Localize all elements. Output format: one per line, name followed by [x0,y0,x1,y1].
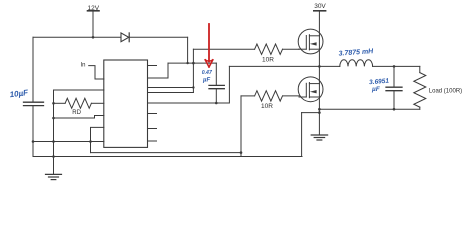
wire In [89,66,104,79]
wire rail B bottom [33,156,302,158]
annotation arrow red [205,24,213,67]
wire R1 to gate [283,48,300,50]
transistor Q1 [298,29,323,54]
wire RD bottom [54,116,104,119]
svg-text:Load (100R): Load (100R) [429,89,462,95]
node filter cap bottom [393,108,396,111]
svg-text:30V: 30V [314,3,326,10]
pin wire HIN b [148,92,194,94]
wire LO riser [240,96,242,157]
svg-text:10µF: 10µF [9,88,29,99]
svg-text:RD: RD [72,110,81,116]
op-amp U1 (driver IC body) [104,60,148,147]
node rail B [52,155,55,158]
wire bottom return [319,108,419,110]
wire R2 to gate [283,95,300,97]
pin stub right 7 [148,128,157,130]
svg-text:3.6951: 3.6951 [369,78,390,87]
capacitor C1 10uF [24,37,44,156]
node VB [186,62,188,64]
ground left [46,174,62,179]
wire pin LO-return [91,127,104,152]
resistor R1 10R [255,44,283,54]
pin stub right 8 [148,140,157,142]
svg-text:µF: µF [202,77,210,83]
svg-text:In: In [80,63,85,69]
wire diode drop [187,37,189,63]
resistor R3 load [414,66,426,109]
ground mid [311,135,327,140]
wire top rail right [129,36,187,38]
node HIN [192,86,194,88]
svg-text:10R: 10R [261,103,273,110]
wire rail A ground [33,141,104,143]
wire return drop [301,113,303,157]
svg-text:10R: 10R [262,57,274,64]
node rail A right [89,140,92,143]
node C2 bottom [215,102,218,105]
svg-text:3.7875 mH: 3.7875 mH [338,48,374,57]
svg-text:µF: µF [371,86,381,93]
node midpoint [318,65,321,68]
wire HO gate [193,48,254,50]
capacitor C3 [386,66,402,109]
node rail A mid [52,140,55,143]
wire half-bridge spine [318,11,320,135]
wire W1 VB rail [168,62,216,64]
pin wire VS [148,66,230,103]
inductor L1 [340,60,373,67]
node filter cap top [393,65,396,68]
wire source return left [302,112,320,114]
wire VS to midpoint [229,65,319,67]
node rail A left [32,140,35,143]
resistor RD [54,98,104,108]
wire ground branch [53,90,55,174]
node source left [318,111,321,114]
wire inductor to load [373,65,420,67]
node RD left [52,102,55,105]
wire rail C [91,152,242,154]
capacitor C2 0.47uF [209,63,224,103]
supply 12V [88,5,100,38]
diode D1 [121,33,129,42]
supply 30V [314,3,327,11]
node RD bottom [52,117,55,120]
node return at spine [318,108,321,111]
wire output node [319,65,339,67]
wire LO gate [241,95,255,97]
wire RD top [54,89,104,91]
pin wire VB [148,63,169,78]
pin stub right 1 [148,65,157,67]
wire gate riser [192,49,194,92]
node gate riser VB [192,62,195,65]
pin wire HIN a [148,87,194,89]
resistor R2 10R [255,91,283,101]
svg-text:0.47: 0.47 [202,70,213,76]
wire top rail left [33,36,121,38]
node 12V rail junction [92,36,95,39]
pin stub right 6 [148,113,157,115]
node LO rail C [240,151,243,154]
transistor Q2 [298,77,323,102]
